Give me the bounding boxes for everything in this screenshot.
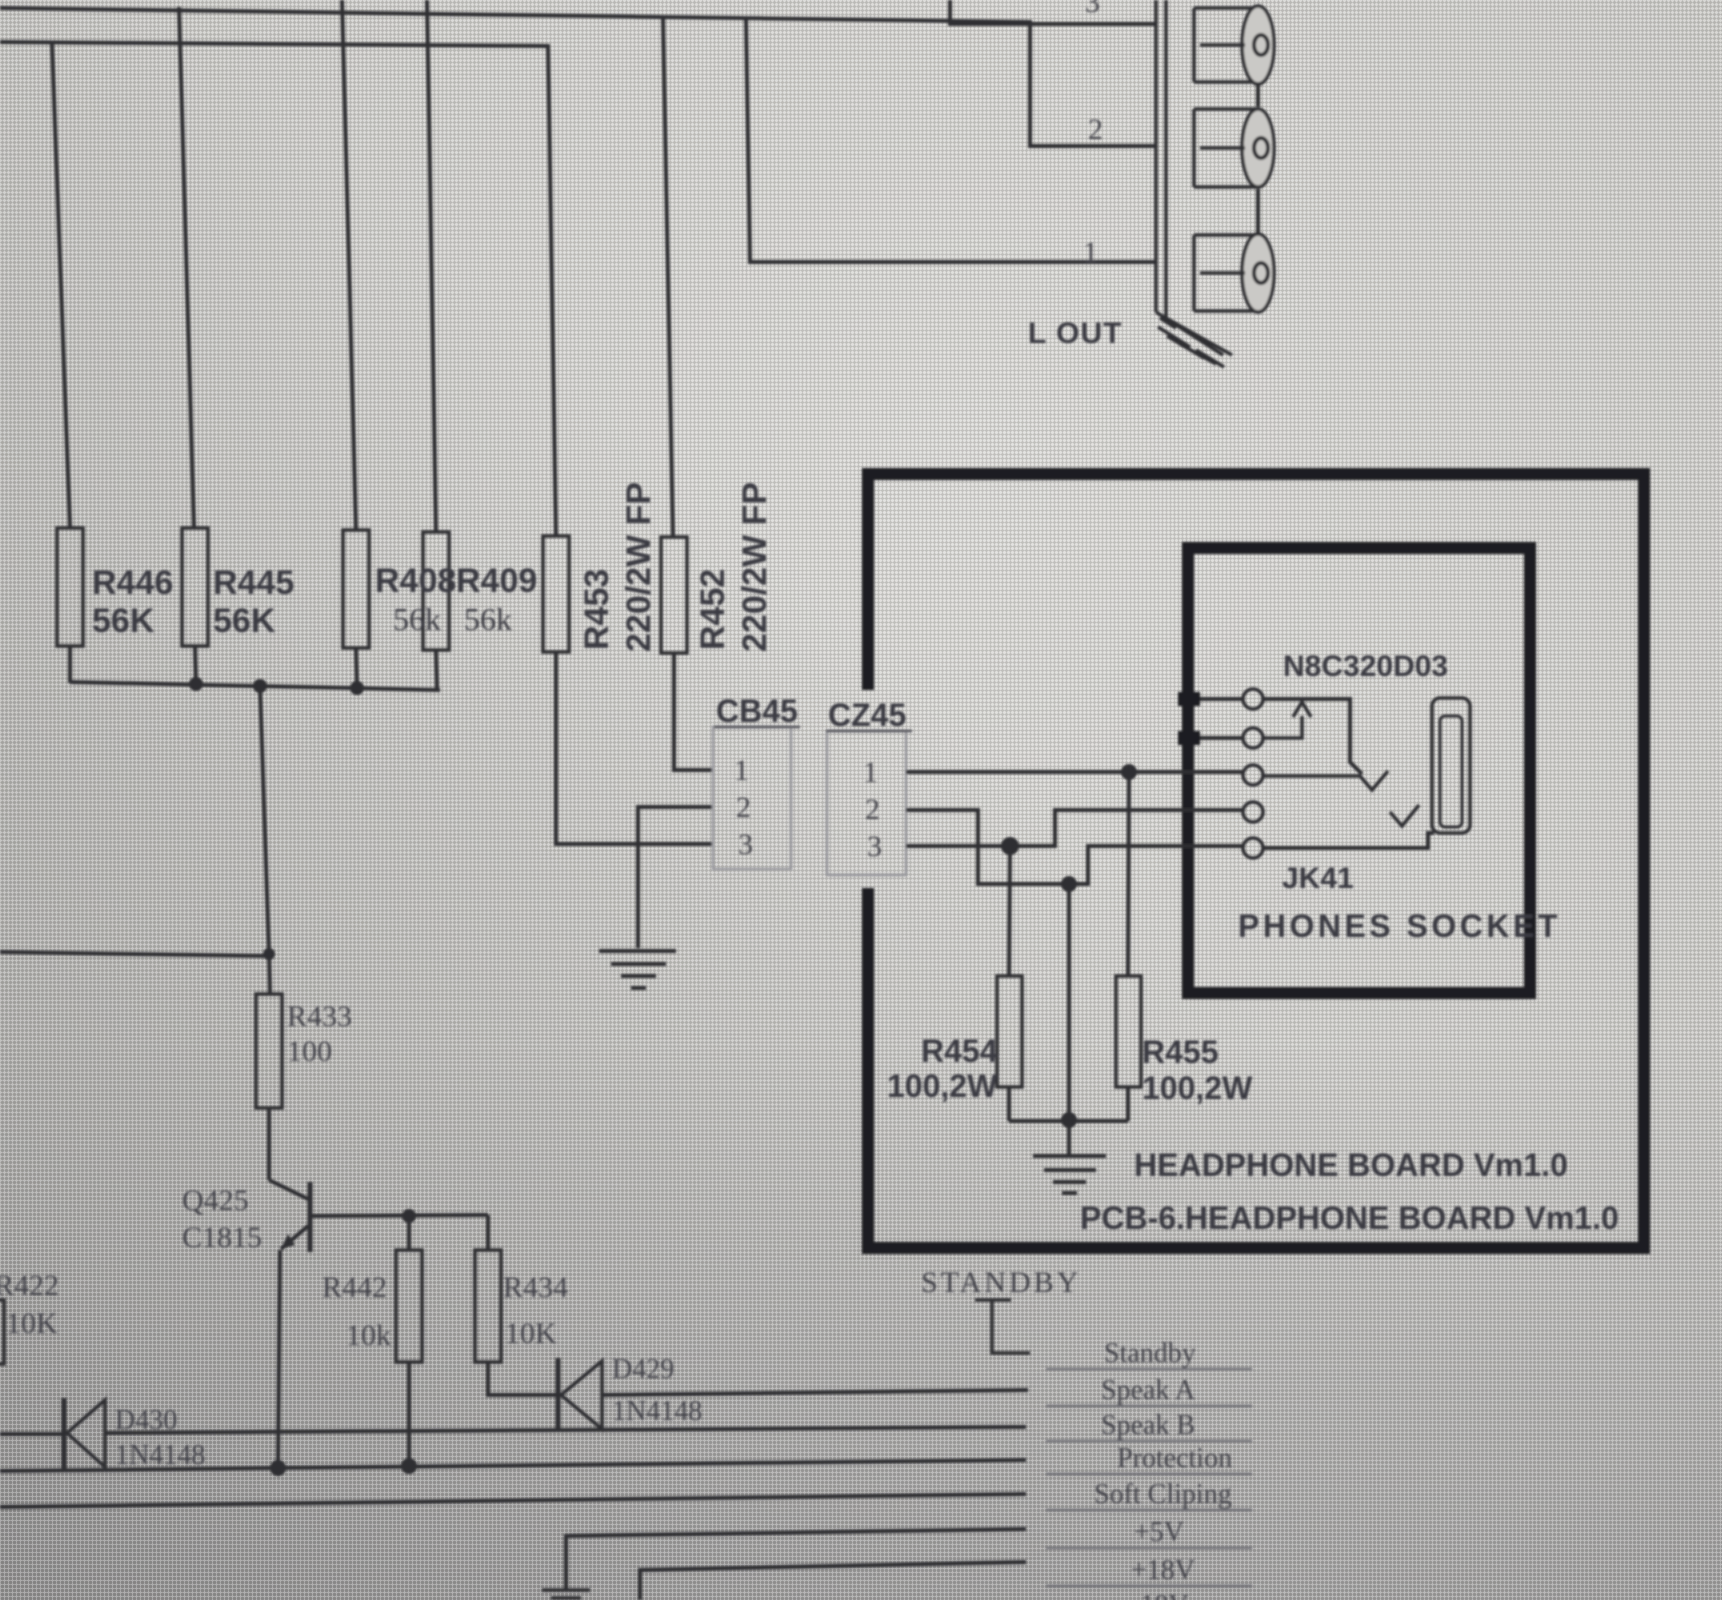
wire Protection long <box>0 1460 1026 1471</box>
svg-text:PHONES SOCKET: PHONES SOCKET <box>1238 908 1561 944</box>
node junction R433 feed on bus <box>253 679 267 693</box>
node junction R408-bus <box>350 681 364 695</box>
wire R452 drop from H1 <box>663 17 673 537</box>
svg-text:N8C320D03: N8C320D03 <box>1283 650 1448 683</box>
wire R454 top lead <box>1009 846 1010 976</box>
jack JK41 pin circles <box>1243 689 1263 858</box>
jack tip contact from circle1 <box>1263 699 1362 774</box>
RCA connector plate <box>1156 0 1232 367</box>
svg-text:220/2W FP: 220/2W FP <box>736 482 774 652</box>
transistor Q425 base bar <box>308 1182 313 1252</box>
wire Q425 base to R442 R434 <box>310 1215 488 1216</box>
svg-text:R453: R453 <box>578 569 616 650</box>
svg-text:R455: R455 <box>1142 1034 1219 1070</box>
jack stub row1 <box>1192 697 1243 701</box>
svg-text:Q425: Q425 <box>182 1184 249 1217</box>
svg-text:D429: D429 <box>612 1354 674 1385</box>
svg-text:56k: 56k <box>464 601 512 637</box>
svg-text:R408: R408 <box>375 562 456 600</box>
svg-text:+18V: +18V <box>1131 1555 1195 1586</box>
RCA jack cylinder 1 <box>1194 6 1274 84</box>
jack edge pad row2 <box>1178 731 1200 745</box>
wire R445 bottom lead <box>195 646 196 684</box>
diode D429 cathode bar <box>556 1358 561 1431</box>
wire R446 bottom lead <box>68 646 72 683</box>
wire Q425 emitter lead <box>278 1250 280 1465</box>
svg-text:100: 100 <box>287 1035 332 1068</box>
svg-text:3: 3 <box>738 828 753 861</box>
wire H1 top feed to R452 / RCA pin2 <box>0 8 1156 146</box>
wire R409 bottom lead <box>436 650 437 689</box>
jack contact check row4 <box>1390 805 1419 826</box>
wire R442 bottom lead <box>407 1362 411 1465</box>
svg-text:100,2W: 100,2W <box>887 1068 998 1104</box>
wire R455 bottom lead <box>1126 1087 1130 1121</box>
ground small at +5V <box>542 1590 590 1598</box>
svg-text:2: 2 <box>736 791 751 824</box>
svg-text:R422: R422 <box>0 1269 59 1302</box>
diode D429 triangle <box>561 1361 602 1429</box>
resistor R446 <box>57 528 83 646</box>
resistor R453 <box>543 536 569 652</box>
resistor R422 (clipped at left edge) <box>0 1300 4 1364</box>
underline CB45 <box>714 726 800 729</box>
svg-text:1N4148: 1N4148 <box>612 1396 702 1427</box>
resistor R445 <box>182 528 208 646</box>
svg-text:HEADPHONE BOARD Vm1.0: HEADPHONE BOARD Vm1.0 <box>1134 1147 1568 1183</box>
wire horizontal into R433 corner <box>0 952 269 956</box>
wire R434 bottom lead to D429 <box>488 1362 556 1395</box>
svg-text:2: 2 <box>1088 113 1103 146</box>
svg-text:Speak B: Speak B <box>1101 1410 1195 1441</box>
svg-text:Speak A: Speak A <box>1101 1375 1196 1406</box>
svg-text:100,2W: 100,2W <box>1142 1070 1253 1106</box>
wire between cylinder1-2 <box>1256 84 1260 107</box>
svg-text:Standby: Standby <box>1104 1338 1196 1369</box>
svg-text:PCB-6.HEADPHONE BOARD Vm1.0: PCB-6.HEADPHONE BOARD Vm1.0 <box>1080 1200 1619 1236</box>
connector CB45 box <box>713 727 791 869</box>
node junction R442-Protection <box>401 1458 417 1474</box>
svg-text:R442: R442 <box>322 1271 387 1304</box>
diode D430 cathode bar <box>62 1398 67 1470</box>
svg-text:2: 2 <box>865 793 880 826</box>
svg-text:R446: R446 <box>92 564 173 602</box>
svg-text:10K: 10K <box>505 1317 557 1350</box>
wire R433 bottom lead <box>267 1108 271 1180</box>
wire H2 top feed to R453 <box>0 42 556 536</box>
resistor R455 <box>1116 976 1141 1087</box>
headphone board outer bold rectangle <box>862 470 1650 1252</box>
wire +18V corner <box>640 1562 1026 1600</box>
svg-text:Protection: Protection <box>1117 1443 1232 1474</box>
diode D430 triangle <box>67 1400 105 1467</box>
svg-text:56K: 56K <box>213 602 276 640</box>
wire RCA pin3 stub <box>950 0 1156 24</box>
wire bus under 56K resistors <box>70 682 440 690</box>
wire R445 top lead <box>179 7 194 528</box>
svg-text:R454: R454 <box>921 1033 998 1069</box>
jack plug inner outline <box>1440 716 1462 827</box>
ground under CB45 <box>599 951 676 988</box>
standby T symbol <box>975 1300 1030 1353</box>
svg-text:1: 1 <box>734 754 749 787</box>
node junction R445-bus <box>189 677 203 691</box>
resistor R434 <box>475 1250 501 1362</box>
wire R434 top lead <box>486 1215 490 1250</box>
transistor Q425 collector diagonal <box>269 1180 308 1199</box>
wire Speak B left stub <box>0 1432 62 1436</box>
svg-text:1: 1 <box>1083 236 1098 269</box>
phones socket inner bold rectangle <box>1188 548 1530 993</box>
node junction L2 to mid ground <box>1061 876 1077 892</box>
wire feed to R433 from bus <box>260 686 270 994</box>
svg-text:3: 3 <box>867 830 882 863</box>
svg-text:D430: D430 <box>115 1405 177 1436</box>
wire R455 top lead <box>1128 772 1129 976</box>
resistor R409 <box>423 532 449 650</box>
resistor R454 <box>997 976 1022 1087</box>
resistor R433 <box>256 994 282 1108</box>
wire +5V with ground drop <box>566 1529 1026 1590</box>
wire Speak B long <box>106 1427 1026 1433</box>
jack stub row2 <box>1192 736 1243 740</box>
svg-text:R409: R409 <box>456 562 537 600</box>
ground under R454 R455 <box>1033 1156 1106 1193</box>
node junction R433 corner <box>263 948 275 960</box>
svg-text:R445: R445 <box>213 564 294 602</box>
wire R442 top lead <box>407 1216 411 1250</box>
wire R408 top lead <box>342 0 356 530</box>
connector CZ45 box <box>827 731 906 875</box>
resistor R442 <box>396 1250 422 1362</box>
wire row5 to plug <box>1263 833 1434 848</box>
svg-text:1N4148: 1N4148 <box>115 1440 205 1471</box>
node junction L3 to R454 <box>1001 837 1019 855</box>
svg-text:R433: R433 <box>287 1000 352 1033</box>
jack plug outer outline <box>1432 698 1470 833</box>
wire R446 top lead <box>52 44 70 528</box>
svg-text:L OUT: L OUT <box>1028 317 1122 350</box>
svg-text:10K: 10K <box>6 1307 58 1340</box>
svg-text:Soft Cliping: Soft Cliping <box>1094 1479 1232 1510</box>
wire Speak A from D429 <box>602 1390 1028 1395</box>
RCA jack cylinder 3 <box>1194 234 1274 312</box>
node junction base-R442 <box>402 1209 416 1223</box>
jack switch arrow from circle2 <box>1263 702 1311 738</box>
svg-text:+5V: +5V <box>1134 1517 1184 1548</box>
wire RCA pin1 drop <box>746 19 1156 262</box>
svg-text:R452: R452 <box>694 569 732 650</box>
wire R408 bottom lead <box>356 648 357 687</box>
wire CB45 pin2 to ground <box>638 807 712 948</box>
svg-text:-18V: -18V <box>1131 1590 1189 1600</box>
wire mid ground drop <box>1067 884 1071 1121</box>
wire ground bus under R454 R455 <box>1009 1119 1128 1123</box>
jack edge pad row1 <box>1178 692 1200 706</box>
node junction ground bus <box>1061 1112 1077 1128</box>
node junction emitter-Protection <box>270 1460 286 1476</box>
wire R409 top lead <box>427 0 436 532</box>
svg-text:56k: 56k <box>393 601 441 637</box>
wire ground stem <box>1067 1121 1071 1155</box>
svg-text:R434: R434 <box>503 1271 568 1304</box>
wire R452 bottom lead to CB45 pin1 <box>674 653 712 770</box>
svg-text:C1815: C1815 <box>182 1221 262 1254</box>
svg-text:CZ45: CZ45 <box>828 697 906 733</box>
underline CZ45 <box>826 730 912 733</box>
RCA jack cylinder 2 <box>1194 109 1274 187</box>
wire Soft Cliping long <box>0 1494 1026 1507</box>
resistor R408 <box>343 530 369 648</box>
jack contact check row3 <box>1263 771 1388 790</box>
wire between cylinder2-3 <box>1256 189 1260 233</box>
svg-text:10k: 10k <box>346 1319 391 1352</box>
svg-text:220/2W FP: 220/2W FP <box>620 482 658 652</box>
wire L3 CZ45 pin3 to jack circle4 <box>906 810 1243 846</box>
svg-text:STANDBY: STANDBY <box>921 1266 1081 1299</box>
transistor Q425 emitter diagonal with arrow <box>281 1226 308 1249</box>
svg-text:3: 3 <box>1085 0 1100 19</box>
node junction L1 to R455 <box>1121 764 1137 780</box>
signal label underlines <box>1046 1369 1252 1586</box>
svg-text:56K: 56K <box>92 602 155 640</box>
wire R454 bottom lead <box>1007 1087 1011 1121</box>
wire R453 bottom lead to CB45 pin3 <box>556 652 712 844</box>
svg-text:CB45: CB45 <box>716 693 798 729</box>
svg-text:1: 1 <box>863 756 878 789</box>
svg-text:JK41: JK41 <box>1282 862 1354 895</box>
resistor R452 <box>661 537 687 653</box>
wire L2 CZ45 pin2 to jack circle5 <box>906 810 1243 884</box>
wire L1 CZ45 pin1 to jack circle3 <box>906 770 1243 774</box>
